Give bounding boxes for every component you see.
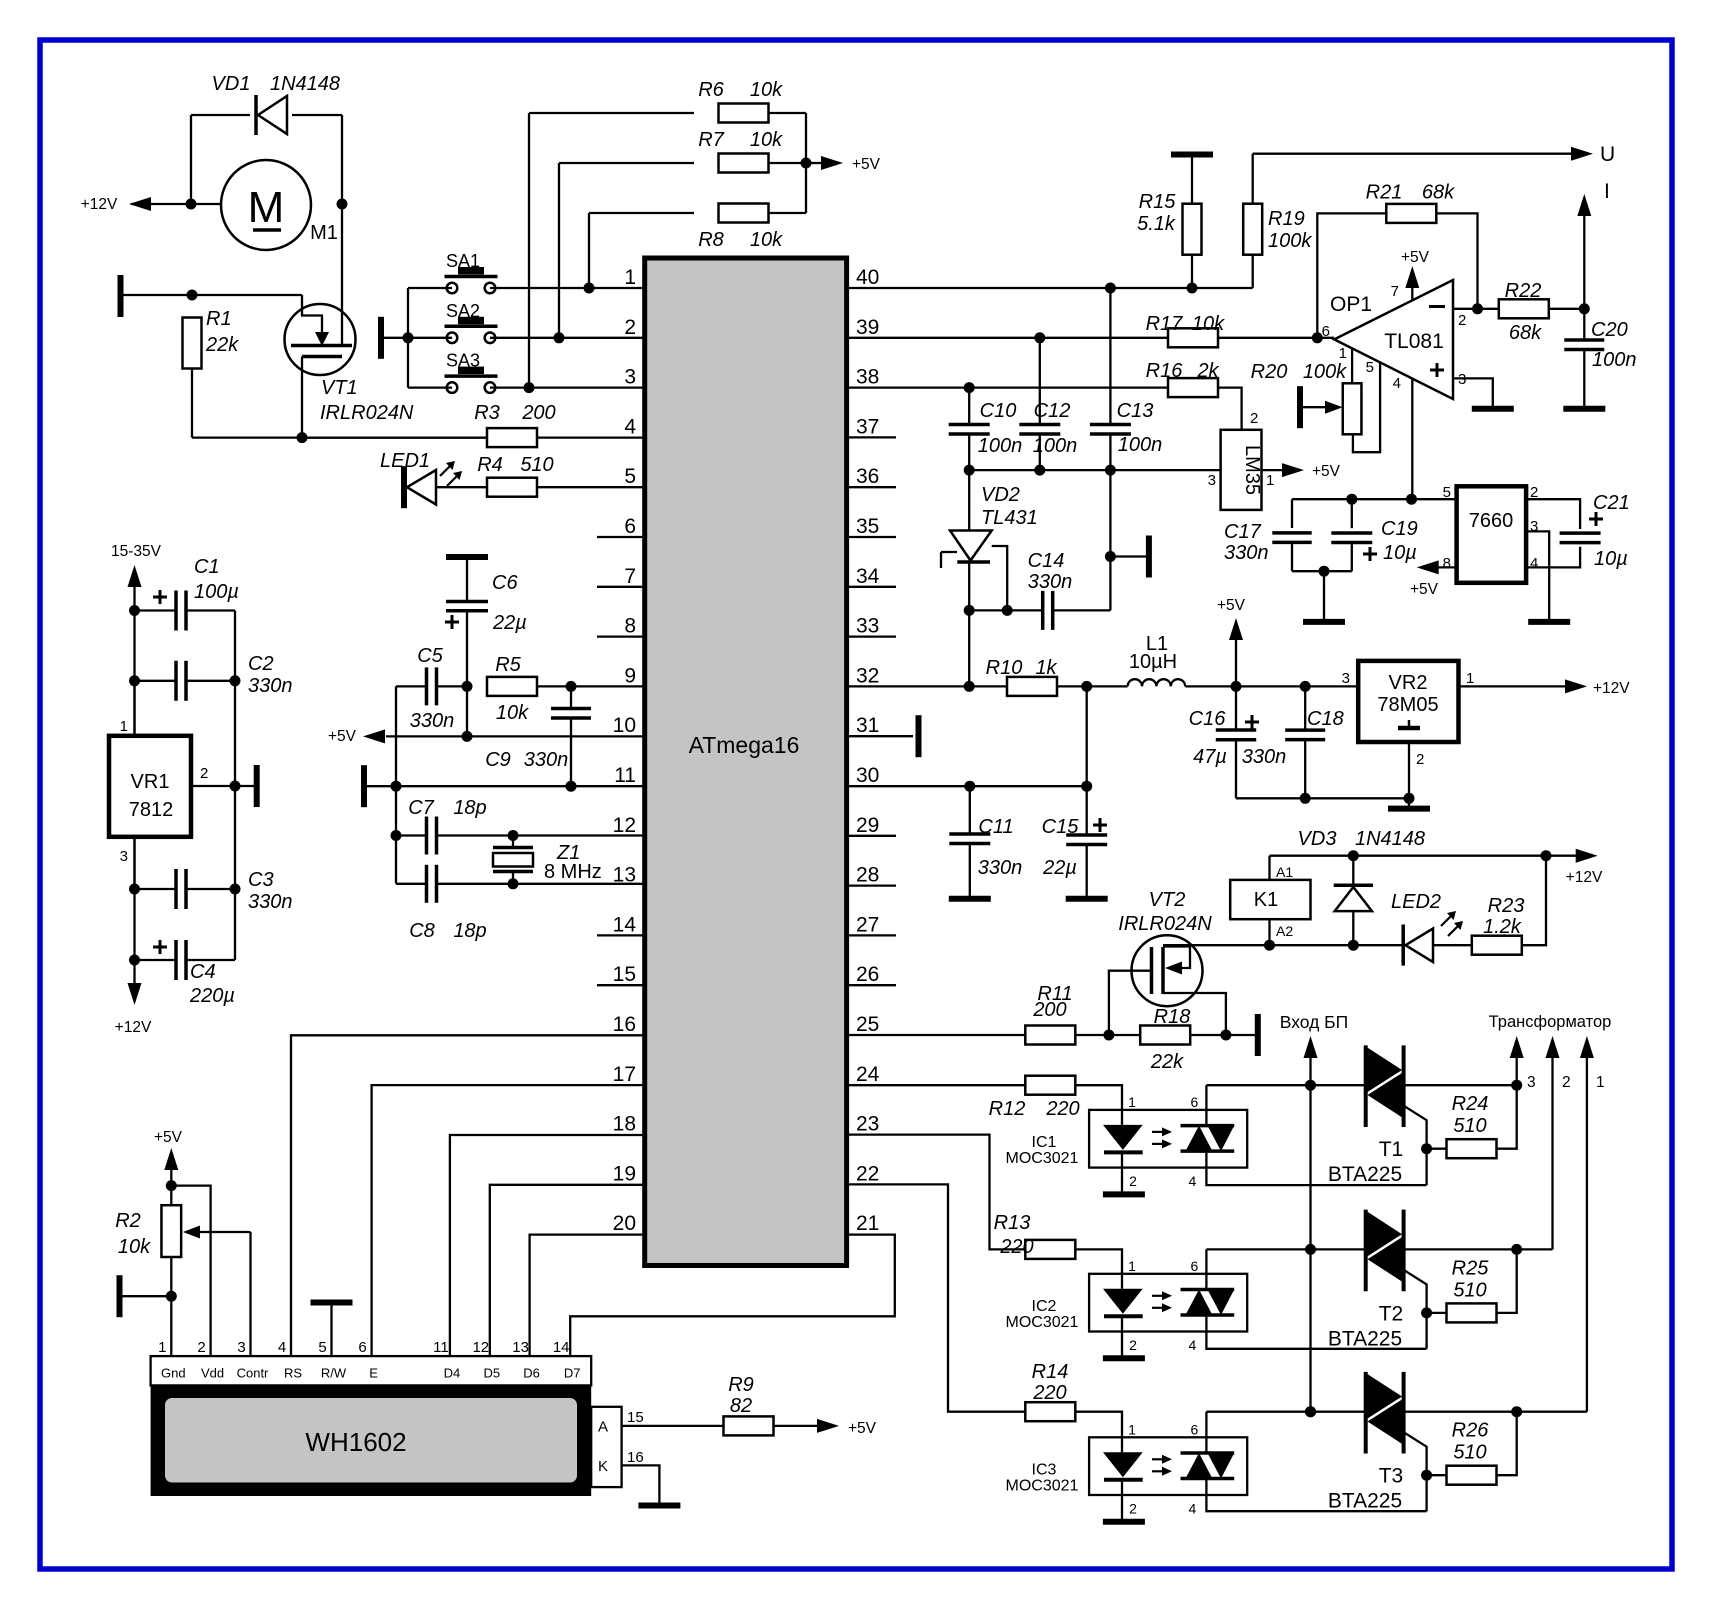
capacitor C13 100n: [1109, 288, 1111, 425]
node gnd drop: [1319, 566, 1330, 577]
svg-text:2: 2: [1458, 312, 1466, 329]
IC1 light arrows: [1152, 1131, 1164, 1133]
svg-text:8: 8: [624, 615, 636, 638]
wire +5V sensor bus: [969, 469, 1220, 471]
transistor VT1 IRLR024N: [285, 304, 356, 375]
svg-text:Vdd: Vdd: [201, 1366, 224, 1381]
wire SA3 to pin3: [490, 386, 645, 388]
node pin2 R22: [1472, 303, 1483, 314]
svg-text:5: 5: [624, 465, 636, 488]
svg-text:VR2: VR2: [1389, 672, 1428, 694]
svg-text:BTA225: BTA225: [1328, 1327, 1402, 1350]
svg-text:1: 1: [1266, 472, 1274, 489]
+5V net arrow pullups: [806, 162, 821, 164]
ground bar OP1 pin3: [1472, 406, 1514, 412]
node VT1 source: [297, 432, 308, 443]
+5V arrow at C16 node: [1235, 640, 1237, 686]
svg-text:68k: 68k: [1422, 182, 1455, 204]
svg-text:1: 1: [1128, 1421, 1136, 1437]
svg-text:22k: 22k: [205, 334, 239, 356]
svg-text:100n: 100n: [1033, 435, 1078, 457]
node bus C13: [1105, 465, 1116, 476]
svg-text:R2: R2: [115, 1210, 141, 1232]
OP1 +5V supply arrow pin7: [1411, 288, 1413, 300]
svg-text:10: 10: [613, 714, 636, 737]
U output wire: [1253, 153, 1577, 155]
ground bar R18: [1255, 1014, 1261, 1056]
svg-text:4: 4: [1189, 1500, 1197, 1516]
svg-text:C6: C6: [492, 572, 518, 594]
node C2 left: [129, 675, 140, 686]
svg-text:330n: 330n: [248, 891, 293, 913]
wire SA2 to pin2: [490, 337, 645, 339]
node T1 transformer: [1511, 1080, 1522, 1091]
svg-text:R23: R23: [1488, 895, 1525, 917]
svg-text:R5: R5: [495, 654, 521, 676]
pin 26 stub: [847, 984, 896, 986]
svg-text:17: 17: [613, 1063, 636, 1086]
wire R7 drop: [558, 163, 560, 338]
node C3 right: [230, 884, 241, 895]
svg-text:C2: C2: [248, 653, 274, 675]
wire VD1 top link: [191, 114, 250, 116]
svg-text:47µ: 47µ: [1193, 746, 1227, 768]
IC1 pin6 wire: [1205, 1085, 1207, 1125]
svg-text:100n: 100n: [978, 435, 1023, 457]
svg-text:100n: 100n: [1118, 434, 1163, 456]
node VR1 pin2: [230, 781, 241, 792]
node gate snubber row1: [1421, 1143, 1432, 1154]
wire pin32 line: [847, 685, 1007, 687]
svg-text:MOC3021: MOC3021: [1006, 1314, 1079, 1331]
svg-text:6: 6: [1191, 1094, 1199, 1110]
svg-text:18p: 18p: [453, 920, 486, 942]
transformer line 2: [1551, 1058, 1553, 1249]
svg-text:VD2: VD2: [981, 484, 1020, 506]
svg-text:32: 32: [856, 664, 879, 687]
LM35 +5V arrow pin1: [1262, 469, 1284, 471]
svg-text:15-35V: 15-35V: [111, 543, 162, 560]
svg-text:D4: D4: [444, 1366, 461, 1381]
wire VD1 right drop: [341, 115, 343, 204]
resistor R8 10k: [589, 212, 694, 214]
svg-text:37: 37: [856, 415, 879, 438]
svg-text:330n: 330n: [978, 857, 1023, 879]
capacitor C1 100u: [135, 609, 177, 611]
capacitor C17 330n: [1291, 499, 1293, 528]
wire ground to gate: [123, 294, 302, 296]
svg-text:27: 27: [856, 913, 879, 936]
capacitor C19 10u: [1351, 499, 1353, 528]
svg-text:36: 36: [856, 465, 879, 488]
node L1 C16: [1231, 681, 1242, 692]
svg-text:2: 2: [200, 765, 208, 782]
svg-text:1: 1: [1128, 1094, 1136, 1110]
svg-text:14: 14: [553, 1339, 570, 1356]
svg-text:15: 15: [627, 1409, 644, 1426]
node bus C12: [1034, 465, 1045, 476]
LCD module WH1602: [151, 1385, 592, 1496]
LED2 light arrows: [1441, 916, 1451, 926]
wire VT2 drain rail: [1163, 944, 1403, 946]
svg-text:1k: 1k: [1035, 657, 1057, 679]
svg-text:C18: C18: [1307, 708, 1344, 730]
svg-text:2: 2: [624, 316, 636, 339]
svg-text:+12V: +12V: [81, 196, 118, 213]
shunt VD2 TL431: [968, 470, 970, 530]
wire xtal left bus: [395, 686, 397, 883]
svg-text:+5V: +5V: [154, 1129, 183, 1146]
svg-text:22: 22: [856, 1162, 879, 1185]
svg-text:R19: R19: [1268, 208, 1305, 230]
triac T1 BTA225: [1364, 1045, 1368, 1127]
svg-text:2: 2: [1129, 1337, 1137, 1353]
svg-text:20: 20: [613, 1212, 636, 1235]
resistor R5 10k: [487, 677, 537, 696]
svg-text:13: 13: [512, 1339, 529, 1356]
svg-text:8 MHz: 8 MHz: [544, 861, 602, 883]
svg-text:82: 82: [730, 1395, 752, 1417]
svg-text:LED1: LED1: [380, 450, 430, 472]
svg-text:IC1: IC1: [1032, 1134, 1057, 1151]
wire VR2 pin2: [1408, 742, 1410, 806]
svg-text:A1: A1: [1276, 864, 1293, 880]
svg-text:22µ: 22µ: [492, 612, 527, 634]
node gate snubber row3: [1421, 1470, 1432, 1481]
node bus pin12: [391, 830, 402, 841]
pin31 ground: [847, 735, 913, 737]
svg-text:2: 2: [197, 1339, 205, 1356]
node bus C10: [964, 465, 975, 476]
IC3 phototriac: [1181, 1451, 1235, 1455]
svg-text:6: 6: [624, 515, 636, 538]
svg-text:R1: R1: [206, 308, 232, 330]
svg-text:7: 7: [1391, 283, 1399, 300]
node OP1 pin6: [1312, 332, 1323, 343]
pin 7 stub: [597, 586, 645, 588]
ground bar VR2: [1388, 806, 1430, 812]
node ref join: [1002, 605, 1013, 616]
node input feed row2: [1305, 1244, 1316, 1255]
node gnd C18: [1300, 793, 1311, 804]
node pin30 C15: [1081, 781, 1092, 792]
LCD backlight pin box: [591, 1407, 621, 1487]
op-amp OP1 TL081: [1334, 280, 1453, 399]
svg-text:1: 1: [624, 266, 636, 289]
svg-text:C19: C19: [1381, 518, 1418, 540]
capacitor C6 22u: [466, 560, 468, 602]
node R23 top: [1541, 850, 1552, 861]
svg-text:+5V: +5V: [1217, 597, 1246, 614]
svg-text:1: 1: [1596, 1074, 1605, 1091]
capacitor C5 330n: [396, 685, 427, 687]
svg-text:22k: 22k: [1150, 1051, 1184, 1073]
svg-text:1: 1: [1466, 670, 1474, 687]
svg-text:3: 3: [120, 848, 128, 865]
svg-text:330n: 330n: [1224, 542, 1269, 564]
power input feed line: [1309, 1058, 1311, 1412]
pin 15 stub: [597, 984, 645, 986]
node pin13 Z1: [508, 878, 519, 889]
svg-text:4: 4: [1530, 555, 1538, 572]
svg-text:C15: C15: [1042, 816, 1080, 838]
ground bar C20: [1563, 406, 1605, 412]
svg-text:11: 11: [433, 1339, 449, 1356]
svg-text:6: 6: [1322, 323, 1330, 340]
svg-text:220: 220: [999, 1236, 1033, 1258]
svg-text:330n: 330n: [1028, 571, 1073, 593]
svg-text:C7: C7: [408, 797, 434, 819]
svg-text:VT2: VT2: [1149, 889, 1186, 911]
wire 7660 pin3 ground: [1526, 531, 1549, 619]
svg-text:+12V: +12V: [115, 1019, 152, 1036]
svg-text:200: 200: [1032, 999, 1066, 1021]
resistor R21 68k feedback: [1317, 213, 1386, 337]
node input feed row1: [1305, 1080, 1316, 1091]
node K1 A2: [1264, 940, 1275, 951]
svg-text:28: 28: [856, 864, 879, 887]
svg-text:2: 2: [1250, 410, 1258, 427]
node R18 right: [1220, 1030, 1231, 1041]
svg-text:+5V: +5V: [848, 1420, 877, 1437]
node pin30 C11: [964, 781, 975, 792]
svg-text:3: 3: [1342, 670, 1350, 687]
pin 14 stub: [597, 934, 645, 936]
capacitor C15 22u: [1086, 786, 1088, 834]
node C18 top: [1300, 681, 1311, 692]
wire C14 link: [969, 609, 1043, 611]
svg-text:3: 3: [1208, 472, 1216, 489]
svg-text:5: 5: [1443, 484, 1451, 501]
svg-text:C16: C16: [1189, 708, 1227, 730]
wire R6 drop: [528, 113, 530, 388]
node feed T3 end: [1305, 1406, 1316, 1417]
svg-text:1.2k: 1.2k: [1483, 916, 1522, 938]
svg-text:MOC3021: MOC3021: [1006, 1477, 1079, 1494]
resistor R13 220: [847, 1135, 1026, 1250]
ground bar C11: [949, 896, 991, 902]
capacitor C18 330n: [1304, 686, 1306, 730]
svg-text:+5V: +5V: [852, 156, 881, 173]
IC1 LED side: [1121, 1110, 1123, 1125]
svg-text:C13: C13: [1117, 400, 1154, 422]
svg-text:16: 16: [613, 1013, 636, 1036]
node pin12 Z1: [508, 830, 519, 841]
svg-text:R12: R12: [989, 1098, 1026, 1120]
wire pin21 to LCD D7: [570, 1235, 895, 1357]
IC2 pin6 wire: [1205, 1249, 1207, 1289]
wire C6 down: [466, 611, 468, 737]
T2 gate wire: [1404, 1270, 1427, 1349]
svg-text:78M05: 78M05: [1377, 694, 1438, 716]
svg-text:C20: C20: [1591, 319, 1628, 341]
svg-text:IC2: IC2: [1032, 1298, 1057, 1315]
svg-text:26: 26: [856, 963, 879, 986]
svg-text:C21: C21: [1593, 492, 1630, 514]
optocoupler IC3 MOC3021: [1089, 1437, 1247, 1495]
svg-text:23: 23: [856, 1113, 879, 1136]
wire pin38 line: [847, 386, 1168, 388]
transistor VT2 IRLR024N: [1132, 935, 1203, 1006]
capacitor C11 330n: [969, 786, 971, 834]
wire +5V pullup bus: [805, 113, 807, 213]
node pin32 VD2: [964, 681, 975, 692]
svg-text:15: 15: [613, 963, 636, 986]
wire cap right bus: [234, 611, 236, 961]
svg-text:10µ: 10µ: [1594, 548, 1628, 570]
IC1 phototriac: [1181, 1124, 1235, 1128]
IC2 LED side: [1121, 1274, 1123, 1289]
svg-text:LED2: LED2: [1391, 891, 1441, 913]
wire pin30 line: [847, 785, 1087, 787]
potentiometer R2 10k: [161, 1205, 181, 1257]
svg-text:C10: C10: [980, 400, 1017, 422]
node T3 transformer: [1511, 1406, 1522, 1417]
wire C15 drop from R10 node: [1086, 686, 1088, 786]
node pin11 left: [391, 781, 402, 792]
svg-text:R20: R20: [1251, 361, 1288, 383]
inductor L1 10uH: [1128, 679, 1186, 686]
svg-text:VD1: VD1: [212, 73, 251, 95]
resistor R15 5.1k: [1191, 158, 1193, 204]
svg-text:10k: 10k: [1192, 313, 1225, 335]
svg-text:2: 2: [1562, 1074, 1571, 1091]
wire pin17 to LCD E: [372, 1085, 645, 1356]
svg-text:R14: R14: [1032, 1361, 1069, 1383]
node VD2 anode: [964, 605, 975, 616]
svg-text:2: 2: [1416, 751, 1424, 768]
svg-text:C14: C14: [1028, 550, 1065, 572]
node motor left: [186, 199, 197, 210]
wire VR1 pin2: [191, 785, 254, 787]
IC1 pin2 ground: [1103, 1191, 1145, 1197]
capacitor C2 330n: [135, 680, 177, 682]
svg-text:9: 9: [624, 664, 636, 687]
node pin1 R8 drop: [584, 283, 595, 294]
node VD3 anode: [1348, 940, 1359, 951]
svg-text:D5: D5: [483, 1366, 500, 1381]
wire 7660 pin2: [1526, 499, 1580, 529]
svg-text:100n: 100n: [1592, 349, 1637, 371]
svg-text:+12V: +12V: [1593, 680, 1630, 697]
svg-text:34: 34: [856, 565, 880, 588]
resistor R25 510: [1427, 1312, 1447, 1314]
svg-text:U: U: [1600, 143, 1615, 166]
svg-text:40: 40: [856, 266, 879, 289]
7660 pin8 +5V arrow: [1436, 566, 1457, 568]
sensor LM35: [1221, 430, 1262, 510]
svg-text:SA1: SA1: [446, 251, 480, 271]
node C3 left: [129, 884, 140, 895]
switch SA1: [447, 283, 458, 294]
diode VD3 1N4148: [1352, 856, 1354, 886]
optocoupler IC2 MOC3021: [1089, 1274, 1247, 1332]
ground bar C14: [1110, 555, 1146, 557]
svg-text:K1: K1: [1254, 889, 1278, 911]
svg-text:R13: R13: [994, 1212, 1031, 1234]
svg-text:R9: R9: [728, 1374, 754, 1396]
svg-text:16: 16: [627, 1449, 644, 1466]
pin 29 stub: [847, 835, 896, 837]
svg-text:18: 18: [613, 1113, 636, 1136]
wire SA1 to pin1: [490, 287, 645, 289]
svg-text:+12V: +12V: [1566, 869, 1603, 886]
node R10 right: [1081, 681, 1092, 692]
capacitor C10 100n: [968, 388, 970, 425]
svg-text:2: 2: [1129, 1500, 1137, 1516]
IC2 pin4 wire: [1206, 1315, 1426, 1349]
svg-text:Contr: Contr: [237, 1366, 269, 1381]
svg-text:M1: M1: [310, 222, 338, 244]
capacitor C7 18p: [396, 834, 427, 836]
capacitor C21 10u: [1560, 531, 1601, 535]
svg-text:TL081: TL081: [1384, 330, 1444, 353]
svg-text:MOC3021: MOC3021: [1006, 1150, 1079, 1167]
svg-text:4: 4: [624, 415, 636, 438]
pin 28 stub: [847, 884, 896, 886]
capacitor C16 47u: [1235, 686, 1237, 730]
IC3 pin6 wire: [1205, 1412, 1207, 1453]
svg-text:12: 12: [472, 1339, 489, 1356]
svg-text:R22: R22: [1505, 280, 1542, 302]
svg-text:VR1: VR1: [131, 771, 170, 793]
output arrow +12V bottom: [133, 960, 135, 985]
wire OP1 pin2: [1453, 308, 1499, 310]
svg-text:SA2: SA2: [446, 301, 480, 321]
capacitor C3 330n: [135, 888, 177, 890]
svg-text:2: 2: [1129, 1173, 1137, 1189]
svg-text:R25: R25: [1452, 1257, 1490, 1279]
svg-text:+5V: +5V: [1312, 463, 1341, 480]
node C2 right: [230, 675, 241, 686]
wire T3 right: [1404, 1411, 1587, 1413]
svg-text:4: 4: [1189, 1173, 1197, 1189]
T3 gate wire: [1404, 1432, 1427, 1511]
IC2 light arrows: [1152, 1295, 1164, 1297]
switch SA2: [447, 333, 458, 344]
svg-text:7812: 7812: [129, 799, 174, 821]
svg-text:+5V: +5V: [328, 728, 357, 745]
transformer line 3: [1516, 1058, 1518, 1085]
node R2 top: [166, 1180, 177, 1191]
node T2 transformer: [1511, 1244, 1522, 1255]
svg-text:18p: 18p: [453, 797, 486, 819]
svg-text:C11: C11: [978, 816, 1013, 838]
svg-text:33: 33: [856, 615, 879, 638]
resistor R12 220: [847, 1084, 1026, 1086]
node R1 top: [187, 290, 198, 301]
ground bar C6 top: [446, 554, 488, 560]
resistor R26 510: [1427, 1474, 1447, 1476]
svg-text:R7: R7: [698, 129, 724, 151]
svg-text:T2: T2: [1379, 1302, 1404, 1325]
node pin39 C12: [1034, 332, 1045, 343]
wire C14 right up: [1109, 470, 1111, 610]
wire SA left bus: [407, 288, 409, 388]
svg-text:R17: R17: [1146, 313, 1184, 335]
svg-text:510: 510: [520, 454, 553, 476]
svg-text:10k: 10k: [750, 129, 783, 151]
svg-text:10k: 10k: [118, 1236, 151, 1258]
svg-text:RS: RS: [284, 1366, 302, 1381]
svg-text:E: E: [369, 1366, 378, 1381]
svg-text:R6: R6: [698, 79, 724, 101]
svg-text:+5V: +5V: [1410, 581, 1439, 598]
svg-text:25: 25: [856, 1013, 879, 1036]
IC3 pin2 ground: [1103, 1519, 1145, 1525]
IC1 pin4 wire: [1206, 1151, 1426, 1185]
node VD3 top: [1348, 850, 1359, 861]
